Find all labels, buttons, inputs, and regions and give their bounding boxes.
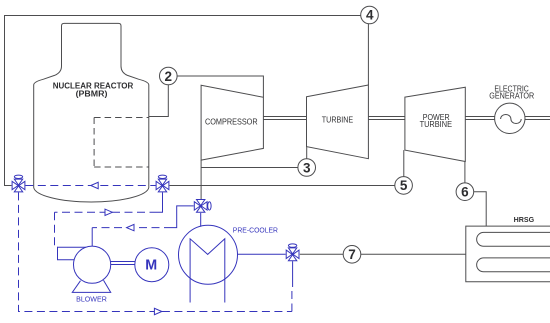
svg-text:2: 2 bbox=[165, 69, 173, 84]
wire: node 6 to HRSG top bbox=[474, 192, 487, 226]
wire: valve V4 to node 7 bbox=[300, 253, 344, 255]
node 5 circle bbox=[395, 177, 413, 195]
shaft generator-right edge bbox=[525, 117, 550, 120]
svg-text:M: M bbox=[145, 257, 157, 273]
blower volute circle bbox=[74, 246, 111, 283]
svg-text:BLOWER: BLOWER bbox=[76, 295, 107, 304]
wire: outer loop top + left border bbox=[5, 16, 361, 186]
valve V2 bbox=[156, 175, 169, 192]
svg-text:4: 4 bbox=[366, 8, 374, 23]
turbine body bbox=[307, 85, 369, 159]
wire: bottom line up to valve V4 bbox=[291, 287, 293, 312]
svg-text:TURBINE: TURBINE bbox=[322, 114, 354, 124]
wire: valve V3 left to pre-cooler outlet line bbox=[172, 206, 194, 228]
wire: node 3 up to turbine inlet corner bbox=[306, 147, 308, 159]
svg-text:PRE-COOLER: PRE-COOLER bbox=[233, 226, 279, 235]
shaft compressor-turbine bbox=[263, 117, 306, 120]
blower shaft bbox=[111, 262, 135, 265]
wire: valve V3 down to pre-cooler top bbox=[200, 213, 202, 227]
blower inlet duct bbox=[58, 247, 86, 259]
svg-text:6: 6 bbox=[461, 185, 469, 200]
HRSG tube 2 bbox=[477, 258, 550, 272]
wire: node 7 to HRSG left bbox=[361, 253, 466, 255]
motor circle bbox=[135, 248, 169, 282]
node 2 circle bbox=[160, 67, 178, 85]
wire: down to blower duct bbox=[55, 212, 58, 247]
wire: node 5 up to power turbine inlet corner bbox=[403, 150, 405, 177]
svg-text:7: 7 bbox=[348, 247, 356, 262]
wire: valve V2 stem to blower discharge line bbox=[158, 192, 163, 212]
node 6 circle bbox=[456, 183, 474, 201]
dashed reactor core box bbox=[94, 118, 149, 168]
wire: node 6 up to power turbine outlet corner bbox=[464, 162, 466, 183]
node 3 circle bbox=[298, 159, 316, 177]
flow arrow right on bottom line bbox=[154, 308, 161, 314]
HRSG box bbox=[466, 226, 550, 282]
node 7 circle bbox=[343, 246, 361, 264]
wire: node 4 down to turbine outlet corner bbox=[367, 24, 369, 85]
flow arrow left on reactor line bbox=[91, 182, 98, 188]
power turbine body bbox=[405, 87, 465, 161]
wire: compressor outlet down to valve V3 bbox=[200, 160, 202, 199]
wire: reactor outlet to node 2 bbox=[149, 85, 169, 117]
pre-cooler tube M bbox=[190, 239, 225, 303]
shaft power turbine-generator bbox=[465, 117, 494, 120]
valve V4 bbox=[286, 244, 299, 261]
svg-text:TURBINE: TURBINE bbox=[420, 119, 453, 129]
svg-text:HRSG: HRSG bbox=[514, 215, 535, 224]
valve V1 bbox=[12, 175, 25, 192]
flow arrow left on pre-cooler outlet line bbox=[127, 224, 134, 230]
shaft turbine-power turbine bbox=[368, 117, 405, 120]
electric generator bbox=[495, 103, 525, 133]
pre-cooler circle bbox=[179, 225, 238, 284]
wire: junction to node 3 bbox=[201, 167, 298, 169]
nuclear reactor vessel outline bbox=[34, 23, 149, 202]
svg-text:3: 3 bbox=[303, 160, 311, 175]
HRSG tube 1 bbox=[477, 232, 550, 246]
valve V3 (cap right) bbox=[194, 200, 211, 213]
blower stand bbox=[72, 280, 110, 292]
svg-text:COMPRESSOR: COMPRESSOR bbox=[205, 116, 258, 126]
blue dashed reactor cooling line bbox=[25, 185, 155, 187]
wire: main line valve V2 to node 5 bbox=[170, 185, 395, 187]
svg-text:5: 5 bbox=[400, 178, 408, 193]
wire: valve V1 down leg (dashed) bbox=[19, 192, 292, 311]
svg-text:GENERATOR: GENERATOR bbox=[489, 91, 534, 101]
wire: pre-cooler right port to valve V4 bbox=[237, 253, 285, 255]
wire: node 2 to compressor inlet corner bbox=[177, 76, 263, 97]
svg-text:(PBMR): (PBMR) bbox=[76, 89, 108, 99]
wire: down to blower inlet bbox=[91, 228, 93, 247]
flow arrow right on blower discharge line bbox=[105, 209, 112, 215]
node 4 circle bbox=[361, 6, 379, 24]
compressor body bbox=[201, 85, 263, 160]
